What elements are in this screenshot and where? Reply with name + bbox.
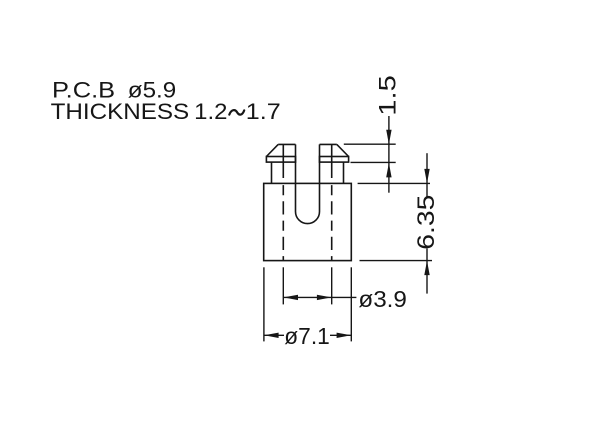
svg-text:1.2: 1.2 (194, 99, 227, 124)
svg-text:THICKNESS: THICKNESS (51, 99, 190, 124)
svg-text:1.7: 1.7 (246, 99, 281, 124)
svg-text:6.35: 6.35 (413, 195, 440, 250)
svg-text:ø7.1: ø7.1 (284, 323, 330, 349)
svg-text:ø3.9: ø3.9 (358, 286, 407, 312)
svg-text:1.5: 1.5 (374, 75, 401, 116)
